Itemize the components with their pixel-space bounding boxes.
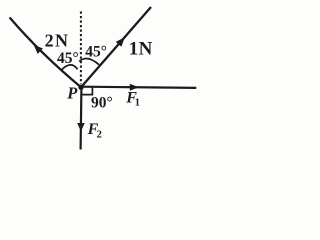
arrowhead of F2 vector xyxy=(77,123,85,132)
arrowhead of 2 N vector xyxy=(34,45,43,54)
force vector F1 (ray right) xyxy=(83,87,196,88)
svg-text:45°: 45° xyxy=(57,50,79,67)
force vector 2 N (ray up-left) xyxy=(10,18,81,88)
svg-text:90°: 90° xyxy=(91,94,113,111)
point P (vertex dot) xyxy=(78,85,83,90)
arrowhead of 1 N vector xyxy=(116,37,125,47)
svg-text:P: P xyxy=(66,84,78,103)
right-angle square marker xyxy=(82,87,92,94)
right 45-degree angle arc xyxy=(79,59,99,65)
svg-text:1: 1 xyxy=(135,97,140,108)
svg-text:N: N xyxy=(55,30,68,50)
svg-text:2: 2 xyxy=(97,129,102,140)
force diagram at point P xyxy=(0,0,226,160)
dashed vertical reference line xyxy=(80,12,82,85)
force vector F2 (ray down) xyxy=(79,89,82,150)
svg-text:45°: 45° xyxy=(85,43,107,60)
left 45-degree angle arc xyxy=(61,65,77,70)
svg-text:N: N xyxy=(139,39,153,60)
arrowhead of F1 vector xyxy=(130,84,139,91)
svg-text:2: 2 xyxy=(45,30,54,50)
force vector 1 N (ray up-right) xyxy=(81,7,151,87)
svg-text:1: 1 xyxy=(129,39,139,60)
